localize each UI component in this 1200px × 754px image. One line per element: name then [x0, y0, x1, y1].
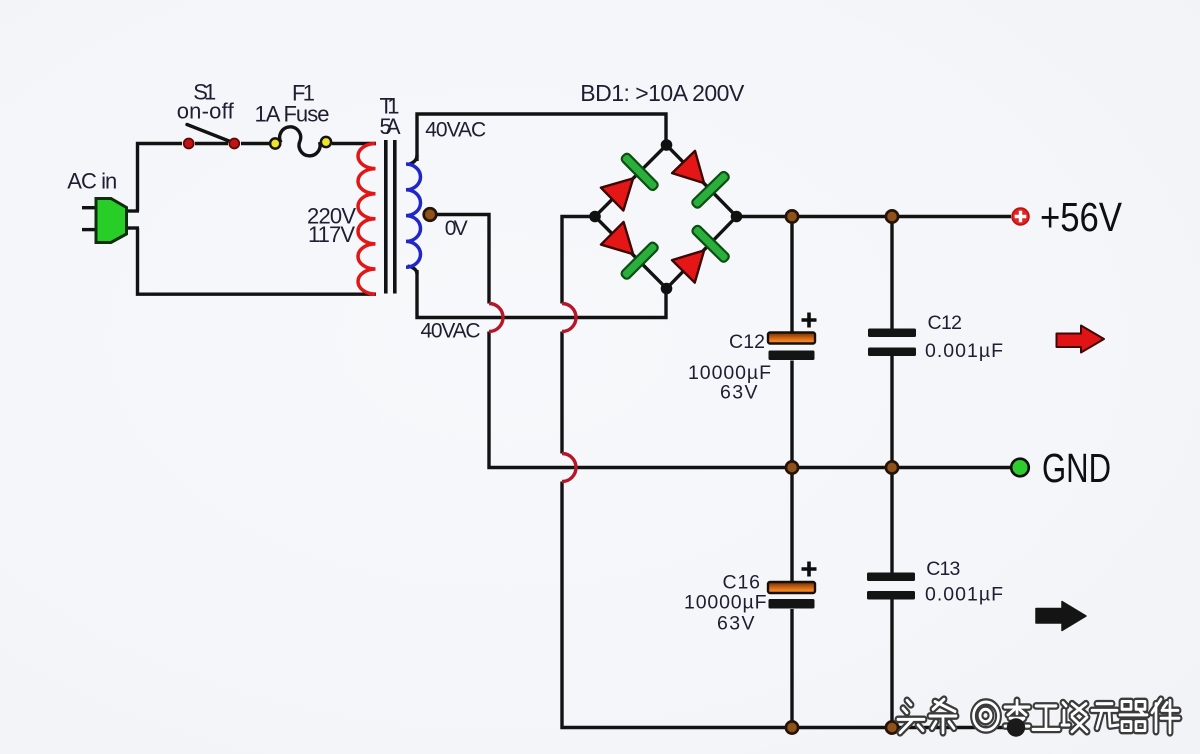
svg-text:63V: 63V: [717, 613, 755, 635]
svg-text:117V: 117V: [308, 222, 355, 247]
svg-text:GND: GND: [1042, 445, 1111, 491]
svg-text:C12: C12: [928, 312, 963, 334]
svg-text:C16: C16: [723, 572, 761, 594]
svg-text:5A: 5A: [380, 114, 401, 139]
svg-text:0V: 0V: [445, 217, 468, 240]
svg-text:+56V: +56V: [1040, 194, 1123, 240]
svg-text:on-off: on-off: [177, 99, 235, 124]
svg-text:C13: C13: [926, 558, 960, 580]
svg-text:0.001µF: 0.001µF: [925, 340, 1003, 362]
svg-text:BD1: >10A 200V: BD1: >10A 200V: [580, 80, 745, 106]
svg-text:1A Fuse: 1A Fuse: [255, 101, 330, 126]
svg-text:C12: C12: [729, 331, 765, 353]
svg-text:63V: 63V: [720, 382, 758, 404]
svg-text:10000µF: 10000µF: [684, 592, 767, 614]
svg-text:40VAC: 40VAC: [425, 119, 486, 142]
svg-text:40VAC: 40VAC: [421, 320, 481, 343]
svg-text:0.001µF: 0.001µF: [925, 584, 1003, 606]
svg-text:AC in: AC in: [67, 169, 117, 194]
